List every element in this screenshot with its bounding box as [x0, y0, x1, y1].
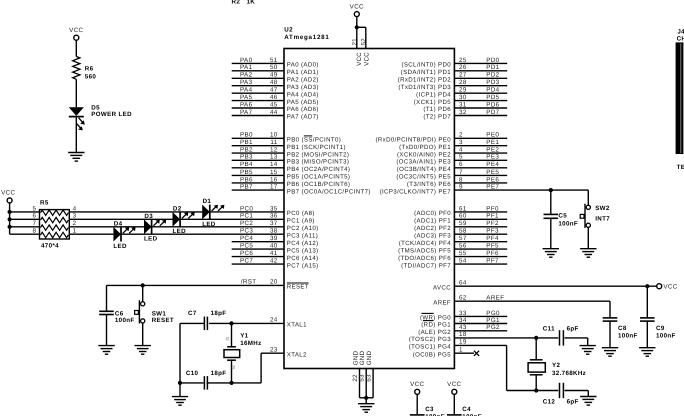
- svg-text:C8: C8: [618, 325, 627, 332]
- power VCC (C4): [447, 381, 461, 394]
- wire SW2 branch: [587, 190, 589, 205]
- switch SW1: [135, 300, 145, 323]
- svg-text:SW2: SW2: [595, 205, 610, 212]
- svg-text:18: 18: [459, 331, 467, 338]
- svg-text:(SDA/INT1) PD1: (SDA/INT1) PD1: [401, 69, 451, 76]
- svg-text:40: 40: [270, 243, 278, 250]
- wire pin PA6: [232, 101, 319, 113]
- wire pin PC7: [232, 258, 319, 270]
- svg-text:VCC: VCC: [410, 381, 424, 388]
- svg-text:PE0: PE0: [486, 132, 499, 139]
- svg-text:39: 39: [270, 235, 278, 242]
- svg-text:AREF: AREF: [486, 294, 504, 301]
- svg-text:PD1: PD1: [486, 64, 499, 71]
- svg-text:C12: C12: [543, 399, 556, 406]
- overline RESET: [287, 282, 309, 284]
- svg-text:100nF: 100nF: [656, 332, 676, 339]
- wire pin PG2: [418, 324, 507, 336]
- svg-text:8: 8: [32, 228, 36, 235]
- wire pin PC5: [232, 243, 319, 255]
- svg-text:LED: LED: [144, 236, 158, 243]
- svg-text:16: 16: [270, 176, 278, 183]
- svg-text:PF2: PF2: [486, 220, 499, 227]
- svg-text:34: 34: [459, 317, 467, 324]
- svg-text:C7: C7: [188, 310, 197, 317]
- svg-text:PB1: PB1: [240, 139, 253, 146]
- svg-text:XTAL2: XTAL2: [287, 351, 307, 358]
- svg-text:PA6 (AD6): PA6 (AD6): [287, 106, 319, 113]
- wire pin PG1: [421, 317, 507, 329]
- svg-text:PE6: PE6: [486, 176, 499, 183]
- svg-text:PA7: PA7: [240, 109, 253, 116]
- svg-text:C9: C9: [656, 325, 665, 332]
- svg-text:PD3: PD3: [486, 79, 499, 86]
- svg-text:PA0 (AD0): PA0 (AD0): [287, 62, 319, 69]
- ground (C6): [98, 346, 114, 355]
- wire pin PA1: [232, 64, 319, 76]
- wire pin PD2: [398, 72, 507, 84]
- wire R5 to D3: [69, 226, 144, 228]
- svg-text:(ALE) PG2: (ALE) PG2: [418, 329, 451, 336]
- resistor R5 element 2: [41, 217, 69, 222]
- capacitor C6 plates: [99, 311, 114, 314]
- svg-text:ATmega1281: ATmega1281: [284, 34, 329, 41]
- svg-text:PF3: PF3: [486, 228, 499, 235]
- wire pin PD6: [423, 101, 507, 113]
- svg-text:PB2 (MOSI/PCINT2): PB2 (MOSI/PCINT2): [287, 151, 350, 158]
- svg-text:XTAL1: XTAL1: [287, 322, 307, 329]
- svg-text:30: 30: [459, 94, 467, 101]
- svg-text:28: 28: [459, 79, 467, 86]
- svg-text:C3: C3: [425, 406, 434, 413]
- wire pin PA4: [232, 87, 319, 99]
- svg-text:1: 1: [459, 346, 463, 353]
- wire pin PB4: [232, 161, 351, 173]
- wire pin PD0: [401, 57, 507, 69]
- svg-text:5: 5: [32, 205, 36, 212]
- svg-text:14: 14: [270, 161, 278, 168]
- svg-text:POWER LED: POWER LED: [91, 111, 132, 118]
- svg-text:PD0: PD0: [486, 57, 499, 64]
- svg-text:(ADC3) PF3: (ADC3) PF3: [414, 232, 451, 239]
- svg-text:PD2: PD2: [486, 72, 499, 79]
- svg-text:48: 48: [270, 79, 278, 86]
- wire pin PE7: [380, 184, 589, 196]
- wire pin PB5: [232, 169, 351, 181]
- wire VCC to pins 21/52: [357, 17, 366, 49]
- svg-text:51: 51: [270, 57, 278, 64]
- wire pin PF5: [398, 243, 507, 255]
- svg-text:INT7: INT7: [595, 215, 610, 222]
- svg-text:PB3: PB3: [240, 154, 253, 161]
- wire pin PE0: [376, 132, 508, 144]
- wire R5 pin 7: [10, 226, 40, 228]
- svg-text:D1: D1: [203, 198, 212, 205]
- wire pin PC3: [240, 228, 318, 240]
- wire pin PE6: [407, 176, 507, 188]
- resistor R6: [73, 57, 80, 80]
- svg-text:100nF: 100nF: [115, 317, 135, 324]
- svg-text:R5: R5: [40, 200, 49, 207]
- svg-text:41: 41: [270, 250, 278, 257]
- wire R5 to D2: [69, 218, 172, 220]
- wire pin PE4: [397, 161, 508, 173]
- svg-text:8: 8: [459, 176, 463, 183]
- svg-text:58: 58: [459, 228, 467, 235]
- svg-text:PB5 (OC1A/PCINT5): PB5 (OC1A/PCINT5): [287, 174, 351, 181]
- svg-text:(RD) PG1: (RD) PG1: [421, 322, 451, 329]
- svg-text:PA0: PA0: [240, 57, 253, 64]
- svg-text:J4: J4: [677, 28, 684, 35]
- svg-text:VCC: VCC: [69, 27, 83, 34]
- wire pin PF0: [414, 205, 507, 217]
- svg-text:TE: TE: [677, 164, 684, 171]
- wire pin PC2: [240, 220, 319, 232]
- wire pin PD4: [416, 87, 507, 99]
- svg-text:PA4: PA4: [240, 87, 253, 94]
- wire pin PA3: [232, 79, 319, 91]
- svg-text:PF5: PF5: [486, 243, 499, 250]
- node junction PE7/C5: [549, 188, 553, 192]
- svg-text:(ADC0) PF0: (ADC0) PF0: [414, 210, 451, 217]
- wire pin PD3: [398, 79, 507, 91]
- svg-text:(SCL/INT0) PD0: (SCL/INT0) PD0: [401, 62, 451, 69]
- wire pin PC0: [240, 205, 315, 217]
- switch SW2: [580, 204, 590, 228]
- node junction pin19/Y2: [534, 388, 538, 392]
- svg-text:20: 20: [270, 279, 278, 286]
- wire pin PA7: [232, 109, 319, 121]
- wire R5 pin 5: [10, 211, 40, 213]
- svg-text:PG1: PG1: [486, 317, 500, 324]
- svg-text:PA5: PA5: [240, 94, 253, 101]
- svg-text:PB2: PB2: [240, 147, 253, 154]
- LED D3: [144, 220, 166, 235]
- capacitor C10 plates: [204, 376, 207, 390]
- svg-text:Y1: Y1: [240, 332, 248, 339]
- svg-text:CH: CH: [677, 35, 684, 42]
- wire VCC to R6: [75, 40, 77, 56]
- svg-text:PA3: PA3: [240, 79, 253, 86]
- svg-text:7: 7: [459, 169, 463, 176]
- svg-text:19: 19: [459, 339, 467, 346]
- svg-text:18pF: 18pF: [211, 310, 227, 317]
- svg-text:PC0 (A8): PC0 (A8): [287, 210, 315, 217]
- svg-text:PB4 (OC2A/PCINT4): PB4 (OC2A/PCINT4): [287, 166, 351, 173]
- crystal Y2: [528, 338, 586, 391]
- wire D5 to ground: [75, 117, 77, 153]
- connector J4: [676, 28, 684, 170]
- node junction GND: [364, 396, 368, 400]
- power VCC (R5 branch): [1, 190, 15, 203]
- svg-text:VCC: VCC: [350, 3, 364, 10]
- svg-text:29: 29: [459, 87, 467, 94]
- capacitor C3 plates: [410, 415, 425, 416]
- svg-text:PE7: PE7: [486, 184, 499, 191]
- svg-text:PB1 (SCK/PCINT1): PB1 (SCK/PCINT1): [287, 144, 346, 151]
- wire pin PF6: [398, 250, 507, 262]
- svg-text:(TDO/ADC6) PF6: (TDO/ADC6) PF6: [398, 255, 451, 262]
- svg-text:59: 59: [459, 220, 467, 227]
- node junction R5 row: [8, 217, 12, 221]
- svg-text:62: 62: [459, 294, 467, 301]
- node junction Y1/C10: [229, 381, 233, 385]
- svg-text:U2: U2: [284, 26, 293, 33]
- svg-text:RESET: RESET: [152, 317, 174, 324]
- svg-text:PB0: PB0: [240, 132, 253, 139]
- svg-text:(OC3B/INT4) PE4: (OC3B/INT4) PE4: [397, 166, 452, 173]
- svg-text:27: 27: [459, 72, 467, 79]
- svg-text:7: 7: [32, 220, 36, 227]
- svg-text:PA1: PA1: [240, 64, 253, 71]
- capacitor C4 plates: [447, 415, 462, 416]
- svg-text:3: 3: [459, 139, 463, 146]
- wire pin PC1: [240, 213, 315, 225]
- capacitor C8 plates: [603, 318, 618, 321]
- wire pin 1 (OC0B) PG5 with no-connect X: [413, 346, 479, 358]
- node junction RST/SW1: [141, 283, 145, 287]
- wire left xtal vertical: [179, 323, 181, 383]
- wire D4 to chip: [121, 233, 284, 235]
- wire pin PG0: [420, 310, 507, 322]
- LED D4: [113, 227, 135, 242]
- svg-text:C5: C5: [558, 213, 567, 220]
- node junction R5 row: [8, 210, 12, 214]
- power VCC (C3): [410, 381, 424, 394]
- svg-text:54: 54: [459, 258, 467, 265]
- svg-text:PB3 (MISO/PCINT3): PB3 (MISO/PCINT3): [287, 159, 350, 166]
- ground (C5): [543, 249, 559, 258]
- capacitor C9 plates: [640, 318, 655, 321]
- svg-text:11: 11: [270, 139, 277, 146]
- svg-text:PB7 (OC0A/OC1C/PCINT7): PB7 (OC0A/OC1C/PCINT7): [287, 188, 371, 195]
- svg-text:42: 42: [270, 258, 278, 265]
- wire pin PA5: [232, 94, 319, 106]
- node junction C10/gnd: [178, 381, 182, 385]
- svg-text:GND: GND: [366, 350, 373, 365]
- svg-text:16MHz: 16MHz: [240, 340, 261, 347]
- wire pin PA2: [232, 72, 319, 84]
- svg-text:VCC: VCC: [1, 190, 15, 197]
- svg-text:1K: 1K: [247, 0, 256, 6]
- wire pin PF1: [414, 213, 507, 225]
- wire C9 branch: [646, 286, 648, 318]
- svg-text:PC4 (A12): PC4 (A12): [287, 240, 319, 247]
- svg-text:(TxD1/INT3) PD3: (TxD1/INT3) PD3: [398, 84, 451, 91]
- svg-text:(TOSC1) PG4: (TOSC1) PG4: [409, 344, 451, 351]
- svg-text:10: 10: [270, 132, 278, 139]
- overline WR: [422, 312, 434, 314]
- svg-text:Y2: Y2: [552, 362, 560, 369]
- ground (U2 GND): [358, 404, 374, 413]
- ground (XTAL): [172, 397, 188, 406]
- svg-text:12: 12: [270, 147, 278, 154]
- svg-text:PF1: PF1: [486, 213, 499, 220]
- svg-text:PF0: PF0: [486, 205, 499, 212]
- svg-text:PB6: PB6: [240, 176, 253, 183]
- wire pin PB3: [232, 154, 350, 166]
- wire R5 pin 8: [10, 233, 40, 235]
- capacitor C7 plates: [204, 317, 207, 331]
- svg-text:PD7: PD7: [486, 109, 499, 116]
- svg-text:6pF: 6pF: [567, 325, 579, 332]
- node junction AVCC/C9: [645, 284, 649, 288]
- svg-text:46: 46: [270, 94, 278, 101]
- LED D2: [173, 212, 195, 227]
- svg-text:D2: D2: [173, 206, 182, 213]
- svg-text:55: 55: [459, 250, 467, 257]
- svg-text:(OC0B) PG5: (OC0B) PG5: [413, 351, 451, 358]
- wire pin 18 (TOSC2) PG3: [409, 331, 588, 346]
- svg-text:VCC: VCC: [447, 381, 461, 388]
- ground (C11): [580, 346, 596, 355]
- svg-text:470*4: 470*4: [41, 242, 59, 249]
- ground (C12): [580, 397, 596, 406]
- svg-text:PC1 (A9): PC1 (A9): [287, 218, 315, 225]
- wire C10 line: [180, 382, 204, 384]
- svg-text:(TOSC2) PG3: (TOSC2) PG3: [409, 336, 451, 343]
- svg-text:33: 33: [459, 310, 467, 317]
- overline RD: [423, 320, 433, 322]
- svg-text:(TxD0/PDO) PE1: (TxD0/PDO) PE1: [399, 144, 451, 151]
- svg-text:R2: R2: [232, 0, 241, 6]
- ground (C8): [602, 348, 618, 357]
- svg-text:23: 23: [270, 346, 278, 353]
- wire pin 19 (TOSC1) PG4: [409, 339, 589, 397]
- svg-text:(TMS/ADC5) PF5: (TMS/ADC5) PF5: [398, 247, 451, 254]
- wire R5 to D4: [69, 233, 113, 235]
- svg-text:PF4: PF4: [486, 235, 499, 242]
- svg-text:32: 32: [459, 109, 467, 116]
- svg-text:PC4: PC4: [240, 235, 253, 242]
- node junction VCC pins: [355, 25, 359, 29]
- LED D5 (POWER LED): [69, 105, 132, 131]
- wire pin PC4: [232, 235, 319, 247]
- svg-text:AREF: AREF: [433, 299, 451, 306]
- ground (SW1): [135, 346, 151, 355]
- wire AREF pin 62: [433, 294, 610, 318]
- wire pin PF3: [414, 228, 507, 240]
- svg-text:PE3: PE3: [486, 154, 499, 161]
- svg-text:64: 64: [459, 279, 467, 286]
- svg-text:5: 5: [459, 154, 463, 161]
- wire pin PD7: [423, 109, 507, 121]
- svg-text:6: 6: [459, 161, 463, 168]
- svg-text:PG2: PG2: [486, 324, 500, 331]
- svg-text:R6: R6: [85, 65, 94, 72]
- svg-text:47: 47: [270, 87, 278, 94]
- wire GND pins 22/53/63: [360, 369, 374, 404]
- svg-text:(OC3A/AIN1) PE3: (OC3A/AIN1) PE3: [396, 159, 451, 166]
- svg-text:6pF: 6pF: [567, 399, 579, 406]
- svg-text:PB7: PB7: [240, 184, 253, 191]
- svg-text:PA5 (AD5): PA5 (AD5): [287, 99, 319, 106]
- svg-text:21: 21: [351, 38, 358, 46]
- svg-text:PA6: PA6: [240, 101, 253, 108]
- svg-text:56: 56: [459, 243, 467, 250]
- svg-text:VCC: VCC: [356, 52, 363, 66]
- svg-text:17: 17: [270, 184, 278, 191]
- capacitor C11 plates: [560, 330, 564, 345]
- svg-text:/RST: /RST: [241, 279, 257, 286]
- wire pin PE2: [397, 147, 507, 159]
- svg-text:LED: LED: [113, 243, 127, 250]
- svg-text:VCC: VCC: [363, 52, 370, 66]
- power VCC (top of U2): [350, 3, 364, 16]
- wire pin PE5: [396, 169, 507, 181]
- svg-text:(T2) PD7: (T2) PD7: [423, 114, 451, 121]
- wire C8 branch: [609, 321, 611, 348]
- svg-text:45: 45: [270, 101, 278, 108]
- svg-text:44: 44: [270, 109, 278, 116]
- wire C4: [453, 394, 455, 415]
- svg-text:PC5: PC5: [240, 243, 253, 250]
- svg-text:31: 31: [459, 101, 467, 108]
- svg-text:(ADC1) PF1: (ADC1) PF1: [414, 218, 451, 225]
- svg-text:(XCK0/AIN0) PE2: (XCK0/AIN0) PE2: [397, 151, 451, 158]
- svg-text:PF6: PF6: [486, 250, 499, 257]
- wire to ground: [179, 383, 181, 397]
- wire /RST to RESET pin 20: [107, 279, 309, 291]
- svg-text:(T3/INT6) PE6: (T3/INT6) PE6: [407, 181, 451, 188]
- svg-text:PA1 (AD1): PA1 (AD1): [287, 69, 319, 76]
- wire XTAL2 pin 23: [261, 346, 307, 383]
- wire pin PB6: [232, 176, 351, 188]
- ground (D5): [68, 153, 84, 162]
- svg-text:(ICP3/CLKO/INT7) PE7: (ICP3/CLKO/INT7) PE7: [380, 188, 452, 195]
- svg-text:PD4: PD4: [486, 87, 499, 94]
- wire D2 to chip: [180, 218, 284, 220]
- svg-text:15: 15: [270, 169, 278, 176]
- svg-text:(TDI/ADC7) PF7: (TDI/ADC7) PF7: [401, 262, 451, 269]
- svg-text:25: 25: [459, 57, 467, 64]
- svg-text:57: 57: [459, 235, 467, 242]
- wire D3 to chip: [152, 226, 284, 228]
- svg-text:C11: C11: [543, 325, 555, 332]
- svg-text:63: 63: [366, 374, 373, 382]
- svg-text:6: 6: [32, 213, 36, 220]
- power VCC (AVCC): [657, 283, 678, 290]
- resistor R5 element 3: [41, 225, 69, 230]
- wire XTAL1 pin 24: [180, 317, 307, 329]
- svg-text:PB6 (OC1B/PCINT6): PB6 (OC1B/PCINT6): [287, 181, 351, 188]
- svg-text:PA3 (AD3): PA3 (AD3): [287, 84, 319, 91]
- wire R5 pin 6: [10, 218, 40, 220]
- svg-text:100nF: 100nF: [618, 332, 638, 339]
- svg-text:(XCK1) PD5: (XCK1) PD5: [414, 99, 451, 106]
- wire R5 to D1: [69, 211, 202, 213]
- node junction XTAL1/Y1: [229, 321, 233, 325]
- wire VCC bus to R5: [9, 203, 11, 234]
- svg-text:9: 9: [459, 184, 463, 191]
- svg-text:PF7: PF7: [486, 258, 499, 265]
- svg-text:PE1: PE1: [486, 139, 499, 146]
- svg-text:4: 4: [459, 147, 463, 154]
- svg-text:D3: D3: [144, 213, 153, 220]
- wire pin PE3: [396, 154, 507, 166]
- svg-text:50: 50: [270, 64, 278, 71]
- ground (C9): [639, 348, 655, 357]
- svg-text:D4: D4: [114, 220, 123, 227]
- svg-text:60: 60: [459, 213, 467, 220]
- resistor R5 element 1: [41, 210, 69, 215]
- overline SS on PB0: [304, 135, 313, 137]
- svg-text:AVCC: AVCC: [433, 284, 451, 291]
- resistor R5 element 4: [41, 232, 69, 237]
- svg-text:PC7 (A15): PC7 (A15): [287, 262, 319, 269]
- node junction pin18/Y2: [534, 336, 538, 340]
- svg-text:PB5: PB5: [240, 169, 253, 176]
